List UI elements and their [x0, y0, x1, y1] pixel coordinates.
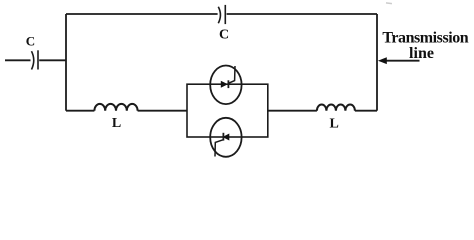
label C (left capacitor): [26, 34, 35, 49]
wire: top horizontal (right of capacitor C top): [227, 13, 377, 15]
inductor L1 (left): [94, 104, 137, 111]
wire: input right segment: [39, 59, 66, 61]
svg-text:C: C: [219, 28, 229, 43]
wire: left vertical: [65, 14, 67, 111]
wire: bottom left corner to inductor L1: [66, 110, 94, 112]
capacitor C (left input): [32, 50, 39, 69]
wire: box to inductor L2: [268, 110, 317, 112]
wire: inductor L1 to box: [138, 110, 187, 112]
varactor diode D2 (bottom, circled): [210, 118, 241, 157]
capacitor C (top): [218, 5, 225, 24]
label L (right inductor): [330, 117, 339, 132]
svg-text:C: C: [26, 34, 35, 49]
svg-text:line: line: [409, 45, 434, 62]
varactor diode D1 (top, circled): [210, 66, 241, 105]
label Transmission line: [382, 30, 468, 62]
label L (left inductor): [112, 116, 121, 131]
box enclosure (diode pair): [187, 84, 268, 137]
arrow into transmission line: [378, 57, 420, 64]
svg-text:L: L: [112, 116, 121, 131]
label C (top capacitor): [219, 28, 229, 43]
wire: top horizontal (left of capacitor C top): [66, 13, 218, 15]
wire: input left segment: [5, 59, 31, 61]
inductor L2 (right): [317, 105, 355, 111]
faint scan artifact top right: [386, 2, 392, 4]
svg-text:L: L: [330, 117, 339, 132]
wire: right vertical: [376, 14, 378, 111]
wire: inductor L2 to right vertical: [355, 110, 377, 112]
